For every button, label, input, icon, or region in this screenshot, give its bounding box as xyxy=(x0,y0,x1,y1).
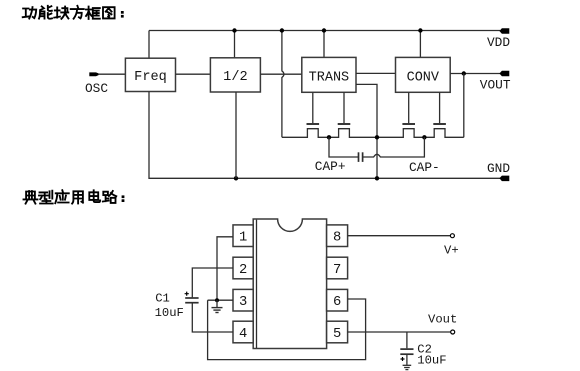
pin 7 box xyxy=(327,257,348,279)
svg-text:CAP-: CAP- xyxy=(409,160,440,175)
pin 1 box xyxy=(233,225,253,247)
pin 3 box xyxy=(233,289,253,311)
title 功能块方框图: xyxy=(23,6,124,19)
node dot pin3-gnd xyxy=(215,298,219,302)
ground G1 stem xyxy=(216,300,218,307)
wire 1/2 top xyxy=(234,31,236,58)
block CONV xyxy=(396,57,451,92)
svg-text:6: 6 xyxy=(333,295,341,310)
wire pin5 to Vout xyxy=(348,331,451,333)
node dot GND-TRANS drop xyxy=(375,176,379,180)
block TRANS xyxy=(302,57,356,92)
pin 5 box xyxy=(327,321,348,343)
wire VDD top rail xyxy=(149,30,500,32)
svg-text:GND: GND xyxy=(487,161,510,176)
char 方 xyxy=(71,6,84,19)
wire Freq to 1/2 xyxy=(176,73,211,75)
wire rail drop with hop over row wire xyxy=(282,31,284,138)
wire CONV to VOUT arrow xyxy=(450,73,500,75)
wire TRANS side output xyxy=(356,84,377,178)
fullwidth colon xyxy=(122,195,125,198)
wire Freq top xyxy=(148,31,150,59)
transistor Q2 gate wire xyxy=(343,92,345,123)
svg-text:OSC: OSC xyxy=(85,81,108,96)
transistor Q4 gate bar xyxy=(433,123,446,125)
svg-text:TRANS: TRANS xyxy=(309,70,350,85)
svg-text:CAP+: CAP+ xyxy=(315,159,346,174)
char 能 xyxy=(39,6,52,19)
capacitor C2 stem top xyxy=(406,332,408,348)
wire pin3 loop under IC to pin6 xyxy=(208,299,366,360)
ground G1 bars xyxy=(212,308,223,313)
transistor Q3 gate bar xyxy=(402,123,415,125)
char 应 xyxy=(55,190,68,203)
wire TRANS to CONV xyxy=(356,72,396,74)
svg-text:4: 4 xyxy=(239,327,247,342)
svg-text:3: 3 xyxy=(239,295,247,310)
wire GND rail xyxy=(149,92,500,179)
transistor Q1 gate bar xyxy=(307,123,320,125)
capacitor C1 plate bottom xyxy=(185,302,198,304)
svg-text:Vout: Vout xyxy=(428,313,457,327)
svg-text:1/2: 1/2 xyxy=(223,70,247,85)
transistor Q3 gate wire xyxy=(408,92,410,123)
node dot TRANS-drop channel xyxy=(375,135,379,139)
svg-text:1: 1 xyxy=(239,231,247,246)
wire 1/2 bottom xyxy=(235,92,237,178)
char 电 xyxy=(89,190,100,202)
pin 6 box xyxy=(327,289,348,311)
capacitor C1 plate top xyxy=(185,297,198,299)
svg-text:CONV: CONV xyxy=(407,70,440,85)
char 路 xyxy=(103,191,117,203)
char 块 xyxy=(54,7,68,19)
block 1/2 xyxy=(210,58,260,92)
capacitor C2 plus sign xyxy=(401,357,405,361)
wire channel with Q1-Q4 source/drain bumps xyxy=(282,129,464,138)
capacitor C2 plate bottom xyxy=(400,353,413,355)
capacitor CAP plate left xyxy=(358,152,360,162)
node dot rail-drop xyxy=(280,28,284,32)
transistor Q2 gate bar xyxy=(338,123,351,125)
block Freq xyxy=(125,58,175,91)
title 典型应用电路: xyxy=(24,190,125,203)
ground G2 stem xyxy=(406,355,408,365)
wire OSC to Freq xyxy=(99,73,126,75)
node dot GND-1/2 xyxy=(234,176,238,180)
pin 2 box xyxy=(233,257,253,279)
pin 4 box xyxy=(233,321,253,343)
terminal circle V+ xyxy=(450,234,454,238)
transistor Q4 gate wire xyxy=(439,92,441,123)
APPLICATION CIRCUIT xyxy=(155,219,459,370)
port arrow OSC xyxy=(89,72,99,76)
char 框 xyxy=(86,7,100,19)
transistor Q1 gate wire xyxy=(312,92,314,123)
port arrow VOUT xyxy=(499,71,509,77)
wire CONV top xyxy=(419,31,421,58)
IC U1 body with notch xyxy=(253,219,326,349)
svg-text:V+: V+ xyxy=(444,243,459,257)
wire TRANS top xyxy=(323,31,325,58)
svg-text:10uF: 10uF xyxy=(155,306,184,320)
svg-text:C1: C1 xyxy=(155,292,170,306)
char 用 xyxy=(72,191,83,203)
node dot CAP+ xyxy=(327,135,331,139)
svg-text:2: 2 xyxy=(239,263,247,278)
wire C1 bottom to pin4 xyxy=(192,304,233,333)
port arrow VDD xyxy=(499,28,509,34)
BLOCK DIAGRAM xyxy=(85,28,511,181)
port arrow GND xyxy=(499,176,509,182)
terminal circle Vout xyxy=(451,330,455,334)
pin 8 box xyxy=(327,225,348,247)
fullwidth colon xyxy=(121,11,124,14)
wire CAP+ drop xyxy=(329,137,358,157)
wire VOUT drop to channel xyxy=(463,74,465,138)
svg-text:8: 8 xyxy=(333,231,341,246)
wire 1/2 to TRANS xyxy=(260,73,301,75)
char 典 xyxy=(24,191,38,204)
wire pin8 to V+ xyxy=(348,235,451,237)
svg-text:VOUT: VOUT xyxy=(480,78,511,93)
char 图 xyxy=(103,7,115,18)
svg-text:7: 7 xyxy=(333,263,341,278)
node dot rail-CONV xyxy=(418,28,422,32)
capacitor C2 plate top xyxy=(400,348,413,350)
node dot VOUT xyxy=(462,71,466,75)
svg-text:Freq: Freq xyxy=(134,70,167,85)
node dot CAP- xyxy=(422,135,426,139)
capacitor CAP plate right xyxy=(362,152,364,162)
wire pin1 to ground drop xyxy=(217,237,233,300)
ground G2 bars xyxy=(403,365,412,369)
svg-text:10uF: 10uF xyxy=(417,354,446,368)
char 型 xyxy=(39,191,53,204)
wire pin3 left xyxy=(208,299,233,301)
node dot rail-1/2 xyxy=(232,28,236,32)
char 功 xyxy=(23,7,36,18)
wire CAP- side with hop xyxy=(363,137,425,157)
node dot rail-TRANS xyxy=(322,28,326,32)
capacitor C1 plus sign xyxy=(185,292,189,296)
IC U1 inner edge line xyxy=(256,220,258,348)
svg-text:5: 5 xyxy=(333,327,341,342)
wire pin2 left xyxy=(192,268,233,297)
svg-text:VDD: VDD xyxy=(487,35,510,50)
